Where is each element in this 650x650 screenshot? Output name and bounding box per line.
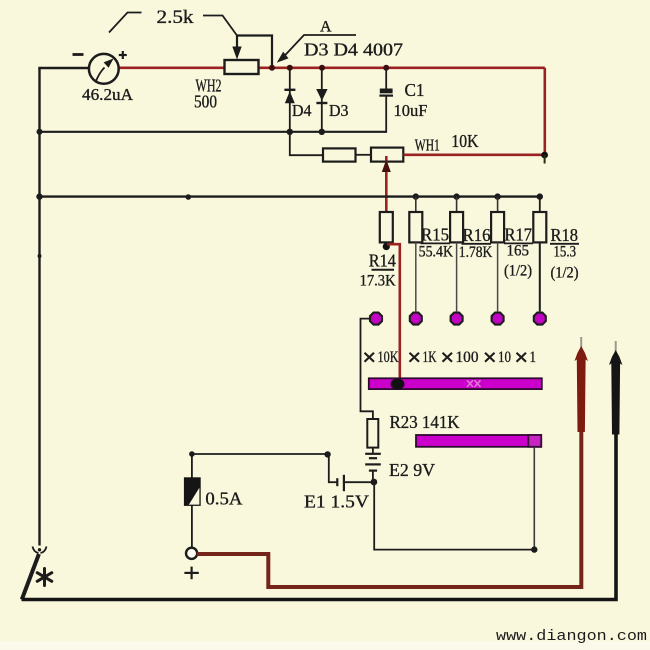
label x1K	[410, 353, 420, 362]
svg-text:D4: D4	[292, 101, 312, 120]
resistor R16	[450, 197, 463, 312]
wire between resistor and WH1	[356, 154, 372, 156]
node dot bus R16	[453, 193, 459, 199]
wire WH1 wiper red drop	[385, 156, 388, 212]
node dot E1/E2 junction	[371, 479, 378, 486]
svg-text:0.5A: 0.5A	[205, 489, 242, 509]
node dot small rail 256	[38, 254, 42, 258]
svg-text:E2 9V: E2 9V	[389, 460, 435, 480]
node dot D3 bottom	[319, 129, 325, 135]
wire fuse top horizontal	[192, 453, 329, 455]
asterisk mark	[37, 569, 52, 586]
wire red right drop	[543, 68, 546, 155]
resistor R14	[380, 212, 393, 242]
wire drop to resistor row	[290, 132, 323, 155]
wire red jog to switch wiper	[387, 244, 400, 380]
fuse 0.5A	[184, 454, 200, 548]
svg-text:R18: R18	[551, 225, 579, 245]
diode D4	[284, 68, 295, 132]
node dot R14 bottom	[383, 243, 390, 250]
node dot C1 top	[383, 65, 389, 71]
battery E2 9V	[365, 448, 381, 482]
switch blade knife	[22, 547, 47, 600]
diode D3	[316, 68, 327, 132]
svg-text:15.3: 15.3	[554, 244, 577, 261]
label x10	[485, 353, 495, 362]
svg-text:R14: R14	[369, 251, 396, 271]
label + terminal	[184, 567, 198, 580]
resistor fixed (series with WH1)	[323, 148, 356, 161]
svg-text:2.5k: 2.5k	[157, 7, 195, 28]
switch contact x1K	[410, 313, 422, 325]
node dot bus x188	[186, 194, 192, 200]
label R18 underlined	[550, 225, 579, 245]
switch contact x1	[534, 313, 546, 325]
potentiometer WH2 500	[225, 60, 259, 74]
svg-text:R23 141K: R23 141K	[390, 412, 460, 432]
meter plus sign	[119, 51, 127, 59]
switch contact x100	[451, 313, 463, 325]
node dot bus R15	[413, 193, 419, 199]
wire main red top	[118, 67, 545, 70]
leader line right of 2.5k	[203, 16, 237, 36]
meter M1 46.2uA	[89, 54, 119, 84]
wire red WH1 output	[403, 154, 545, 157]
label R14 underlined	[369, 251, 396, 271]
svg-text:D3 D4 4007: D3 D4 4007	[304, 40, 403, 60]
wire contact1 to R23	[361, 319, 373, 419]
WH1 wiper arrow	[382, 160, 391, 173]
node dot D4 top	[287, 65, 293, 71]
svg-text:WH1: WH1	[415, 136, 440, 155]
svg-text:10K: 10K	[451, 131, 478, 151]
meter minus sign	[73, 53, 84, 56]
wire meter left	[38, 67, 88, 69]
WH2 wiper arrow and bracket	[232, 36, 272, 68]
resistor R18	[533, 197, 546, 312]
svg-text:R15: R15	[421, 225, 449, 245]
wire red to probe (bottom)	[197, 430, 582, 587]
svg-text:165: 165	[507, 243, 530, 260]
svg-text:100: 100	[456, 349, 479, 366]
wire diode bottom bus	[40, 131, 387, 133]
svg-text:R16: R16	[463, 225, 491, 245]
resistor R23	[367, 419, 378, 448]
node dot rail/diode-bus	[37, 129, 43, 135]
svg-text:55.4K: 55.4K	[419, 244, 454, 261]
leader arrow for node A	[277, 35, 356, 63]
terminal jack +	[186, 548, 197, 559]
wire battery loop bottom	[374, 482, 534, 550]
svg-text:17.3K: 17.3K	[360, 273, 396, 290]
switch contact x10K	[370, 313, 382, 325]
wire left rail	[38, 68, 40, 546]
label x1	[517, 353, 527, 362]
svg-text:10K: 10K	[378, 349, 400, 366]
rotary switch bar 2	[416, 435, 541, 447]
svg-text:D3: D3	[329, 101, 349, 120]
svg-text:C1: C1	[405, 80, 425, 100]
svg-text:10: 10	[498, 349, 511, 366]
svg-text:A: A	[320, 19, 332, 36]
resistor R17	[491, 197, 504, 312]
node dot red corner with stub	[541, 152, 548, 164]
probe red	[575, 337, 588, 432]
node dot rail/bus	[36, 193, 42, 199]
wire black bottom	[22, 430, 617, 600]
svg-text:46.2uA: 46.2uA	[82, 85, 133, 104]
node dot fuse corner	[189, 451, 195, 457]
svg-text:(1/2): (1/2)	[551, 265, 579, 282]
svg-text:www.diangon.com: www.diangon.com	[496, 628, 647, 645]
svg-text:10uF: 10uF	[394, 101, 428, 120]
label R17 underlined	[504, 225, 533, 245]
wiper contact dot on bar 1	[391, 379, 405, 390]
bar 2 end cap	[528, 435, 541, 447]
node dot A	[269, 65, 275, 71]
svg-text:1K: 1K	[423, 349, 438, 366]
battery E1 1.5V	[329, 454, 371, 491]
svg-text:1.78K: 1.78K	[459, 244, 493, 261]
probe black	[609, 341, 622, 435]
switch contact x10	[492, 313, 504, 325]
wire bar2 to bottom	[533, 447, 535, 550]
label R16 underlined	[462, 225, 492, 245]
potentiometer WH1	[371, 148, 403, 162]
node dot bus R18	[537, 193, 543, 199]
svg-text:500: 500	[194, 92, 217, 112]
rotary switch bar 1	[369, 378, 542, 389]
capacitor C1	[379, 68, 393, 133]
svg-text:R17: R17	[505, 225, 533, 245]
label x100	[443, 353, 453, 362]
node dot bar2 bottom	[531, 546, 537, 552]
svg-text:1: 1	[530, 349, 537, 366]
svg-text:(1/2): (1/2)	[504, 263, 532, 280]
node dot E1 top corner	[324, 451, 330, 457]
node dot bus R17	[494, 193, 500, 199]
resistor R15	[409, 197, 422, 312]
leader line left of 2.5k	[109, 13, 142, 33]
bar 1 infinity mark	[467, 380, 481, 387]
node dot D3 top	[319, 65, 325, 71]
node dot D4 bottom	[287, 129, 293, 135]
svg-text:E1 1.5V: E1 1.5V	[304, 492, 369, 512]
label x10K	[365, 353, 375, 362]
wire main bus	[40, 195, 540, 197]
label R15 underlined	[421, 225, 451, 245]
